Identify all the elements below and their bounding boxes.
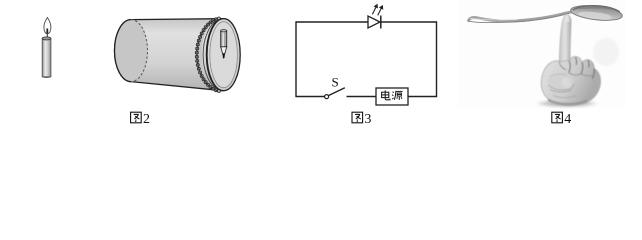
shadow under hand bbox=[535, 100, 599, 108]
glyph 电 bbox=[382, 90, 390, 99]
drum right face bbox=[207, 19, 240, 91]
finger bbox=[559, 14, 571, 63]
svg-text:2: 2 bbox=[143, 112, 150, 126]
knuckle and finger creases bbox=[569, 57, 595, 78]
LED D1 bbox=[368, 16, 380, 28]
fist right-side deeper shading bbox=[574, 68, 600, 105]
svg-text:3: 3 bbox=[364, 112, 371, 126]
candle wick bbox=[46, 29, 48, 38]
thumb nail bbox=[560, 76, 572, 89]
wire left vertical bbox=[295, 21, 297, 97]
label 图4 bbox=[552, 112, 563, 123]
wire box to right bbox=[408, 96, 437, 98]
spoon bowl bbox=[570, 3, 623, 22]
candle body bbox=[42, 38, 51, 77]
drum left face bbox=[115, 20, 148, 82]
wire right vertical bbox=[436, 21, 438, 97]
drum serrated ring band bbox=[197, 19, 217, 91]
wire top-left bbox=[296, 21, 368, 23]
label 图3 bbox=[352, 112, 363, 123]
wire switch to box bbox=[347, 96, 377, 98]
switch S bbox=[325, 95, 329, 99]
wire top-right bbox=[381, 21, 437, 23]
serration bumps bbox=[195, 17, 220, 93]
drum left face hidden rim (dashed) bbox=[131, 20, 147, 82]
wire bottom-left bbox=[296, 96, 325, 98]
candle flame bbox=[44, 18, 51, 34]
pencil on right face bbox=[221, 31, 227, 47]
candle top face bbox=[42, 37, 51, 40]
candle bottom curve bbox=[42, 77, 51, 78]
crease under thumb bbox=[550, 90, 572, 92]
photo background bbox=[458, 0, 626, 108]
flame inner wick dark bbox=[46, 29, 48, 34]
thumb across fist bbox=[548, 73, 574, 90]
svg-text:4: 4 bbox=[564, 112, 571, 126]
glyph 源 bbox=[392, 91, 402, 100]
crimp arcs bbox=[197, 19, 217, 91]
LED light arrows bbox=[372, 4, 383, 15]
fist bottom shading bbox=[548, 100, 588, 104]
svg-text:S: S bbox=[332, 75, 339, 90]
power supply box bbox=[376, 88, 408, 105]
fist bbox=[541, 56, 600, 105]
spoon handle bbox=[469, 12, 573, 21]
drum body bbox=[115, 19, 223, 91]
label 图2 bbox=[131, 112, 142, 123]
